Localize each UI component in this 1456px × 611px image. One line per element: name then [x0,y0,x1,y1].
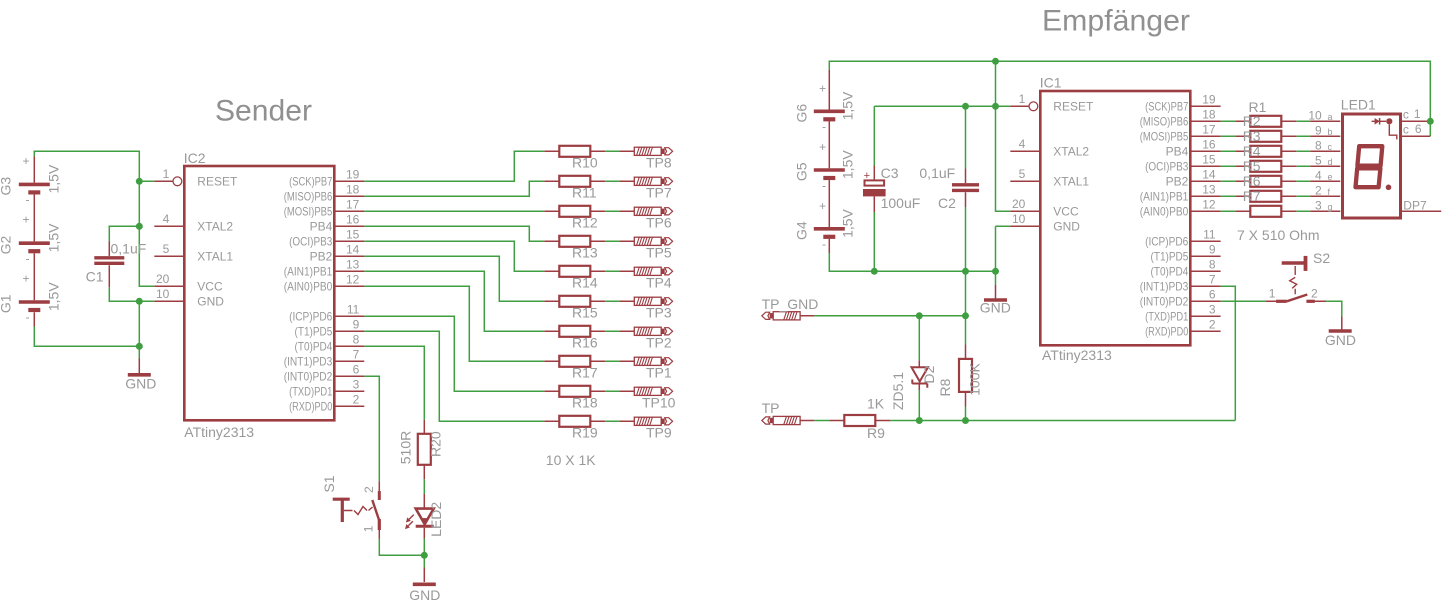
svg-text:G2: G2 [0,235,14,254]
svg-text:R20: R20 [427,431,443,457]
svg-text:(MOSI)PB5: (MOSI)PB5 [284,205,333,219]
svg-text:(INT0)PD2: (INT0)PD2 [1140,295,1189,309]
svg-text:(INT1)PD3: (INT1)PD3 [284,355,333,369]
svg-text:IC1: IC1 [1040,75,1062,91]
svg-text:ATtiny2313: ATtiny2313 [184,424,254,440]
svg-text:R17: R17 [572,365,598,381]
svg-text:+: + [819,199,826,213]
svg-text:(ICP)PD6: (ICP)PD6 [1145,235,1188,249]
svg-text:12: 12 [346,272,360,286]
svg-text:6: 6 [1415,122,1422,136]
svg-text:16: 16 [1202,137,1216,151]
svg-text:(OCI)PB3: (OCI)PB3 [1145,160,1188,174]
svg-text:19: 19 [1202,92,1216,106]
svg-text:15: 15 [346,227,360,241]
svg-text:(T0)PD4: (T0)PD4 [295,340,333,354]
svg-text:C2: C2 [938,195,956,211]
svg-text:GND: GND [980,300,1011,316]
svg-text:10 X 1K: 10 X 1K [546,452,596,468]
svg-text:18: 18 [1202,107,1216,121]
svg-text:10: 10 [1308,108,1322,122]
svg-text:1,5V: 1,5V [839,91,855,120]
svg-text:R12: R12 [572,215,598,231]
svg-text:(RXD)PD0: (RXD)PD0 [289,400,332,414]
svg-text:PB4: PB4 [310,220,333,234]
svg-text:(INT1)PD3: (INT1)PD3 [1140,280,1189,294]
svg-text:-: - [26,310,30,324]
svg-text:ATtiny2313: ATtiny2313 [1042,347,1112,363]
svg-text:+: + [22,213,29,227]
svg-text:TP: TP [762,400,780,416]
svg-text:7: 7 [353,347,360,361]
svg-text:1,5V: 1,5V [839,208,855,237]
svg-text:R18: R18 [572,395,598,411]
svg-text:(TXD)PD1: (TXD)PD1 [1145,310,1188,324]
svg-text:1,5V: 1,5V [45,282,61,311]
svg-text:1: 1 [1414,107,1421,121]
svg-text:(TXD)PD1: (TXD)PD1 [289,385,332,399]
svg-text:TP6: TP6 [646,215,672,231]
svg-text:IC2: IC2 [184,150,206,166]
svg-text:a: a [1328,112,1333,122]
svg-text:5: 5 [1019,167,1026,181]
svg-text:8: 8 [353,332,360,346]
svg-text:17: 17 [346,197,360,211]
svg-text:+: + [864,170,870,182]
svg-text:R4: R4 [1243,143,1261,159]
svg-text:R15: R15 [572,305,598,321]
svg-text:+: + [819,140,826,154]
svg-text:ZD5.1: ZD5.1 [890,372,906,410]
svg-text:(RXD)PD0: (RXD)PD0 [1145,325,1188,339]
svg-text:1,5V: 1,5V [45,164,61,193]
svg-text:(AIN1)PB1: (AIN1)PB1 [1140,190,1189,204]
svg-text:(MISO)PB6: (MISO)PB6 [1140,115,1189,129]
svg-text:3: 3 [1315,198,1322,212]
svg-text:(T1)PD5: (T1)PD5 [295,325,333,339]
svg-text:R2: R2 [1243,113,1261,129]
svg-text:(ICP)PD6: (ICP)PD6 [289,310,332,324]
svg-text:G6: G6 [794,104,810,123]
svg-text:10: 10 [156,287,170,301]
svg-text:XTAL2: XTAL2 [1053,145,1089,159]
svg-text:11: 11 [1203,227,1216,241]
svg-text:19: 19 [346,167,360,181]
svg-text:-: - [822,120,826,134]
svg-text:510R: 510R [398,431,414,464]
svg-text:1: 1 [1019,92,1026,106]
svg-text:(T1)PD5: (T1)PD5 [1151,250,1189,264]
svg-text:(SCK)PB7: (SCK)PB7 [1145,100,1188,114]
svg-text:R19: R19 [572,425,598,441]
svg-text:2: 2 [1311,287,1318,301]
svg-text:-: - [26,193,30,207]
svg-text:R5: R5 [1243,158,1261,174]
svg-text:(INT0)PD2: (INT0)PD2 [284,370,333,384]
svg-text:4: 4 [163,212,170,226]
svg-text:5: 5 [1315,153,1322,167]
svg-text:R8: R8 [937,378,953,396]
svg-text:100uF: 100uF [881,195,921,211]
svg-text:S2: S2 [1313,250,1330,266]
svg-text:1: 1 [1269,287,1276,301]
svg-text:G5: G5 [794,162,810,181]
svg-text:0,1uF: 0,1uF [111,241,147,257]
svg-text:LED2: LED2 [428,502,444,537]
svg-text:14: 14 [346,242,360,256]
svg-text:VCC: VCC [197,280,223,294]
svg-text:G3: G3 [0,177,14,196]
svg-text:RESET: RESET [197,175,238,189]
svg-text:R10: R10 [572,155,598,171]
svg-text:R11: R11 [572,185,597,201]
svg-text:PB2: PB2 [1166,175,1189,189]
svg-text:TP5: TP5 [646,245,672,261]
svg-text:100K: 100K [967,362,983,395]
svg-text:GND: GND [1325,332,1356,348]
svg-text:10: 10 [1012,212,1026,226]
svg-text:XTAL1: XTAL1 [197,250,233,264]
svg-text:R13: R13 [572,245,598,261]
svg-text:(MOSI)PB5: (MOSI)PB5 [1140,130,1189,144]
svg-text:15: 15 [1202,152,1216,166]
svg-text:11: 11 [347,302,360,316]
svg-text:XTAL2: XTAL2 [197,220,233,234]
svg-text:2: 2 [1315,183,1322,197]
svg-text:2: 2 [1209,317,1216,331]
svg-text:-: - [26,251,30,265]
svg-text:1K: 1K [867,395,885,411]
svg-text:20: 20 [156,272,170,286]
svg-text:R14: R14 [572,275,598,291]
svg-text:RESET: RESET [1053,100,1094,114]
svg-text:2: 2 [353,392,360,406]
svg-text:5: 5 [163,242,170,256]
svg-text:6: 6 [1209,287,1216,301]
svg-text:GND: GND [125,376,156,392]
svg-text:TP4: TP4 [646,275,672,291]
svg-text:D2: D2 [921,365,937,383]
svg-text:0,1uF: 0,1uF [919,165,955,181]
svg-text:c: c [1403,122,1409,136]
svg-text:R7: R7 [1243,188,1261,204]
svg-text:9: 9 [353,317,360,331]
svg-text:9: 9 [1315,123,1322,137]
svg-text:7: 7 [1209,272,1216,286]
svg-text:18: 18 [346,182,360,196]
svg-text:4: 4 [1315,168,1322,182]
svg-text:(SCK)PB7: (SCK)PB7 [289,175,332,189]
svg-text:Sender: Sender [215,95,312,128]
svg-text:VCC: VCC [1053,205,1079,219]
svg-text:8: 8 [1315,138,1322,152]
svg-text:1,5V: 1,5V [45,223,61,252]
svg-text:6: 6 [353,362,360,376]
svg-text:Empfänger: Empfänger [1042,4,1190,37]
svg-text:(AIN1)PB1: (AIN1)PB1 [284,265,333,279]
svg-text:TP8: TP8 [646,155,672,171]
svg-text:+: + [22,272,29,286]
svg-text:13: 13 [1202,182,1216,196]
svg-text:R6: R6 [1243,173,1261,189]
svg-text:7 X 510 Ohm: 7 X 510 Ohm [1237,227,1320,243]
svg-text:TP7: TP7 [646,185,672,201]
svg-text:(AIN0)PB0: (AIN0)PB0 [1140,205,1189,219]
svg-text:16: 16 [346,212,360,226]
svg-text:C1: C1 [86,269,104,285]
svg-text:-: - [822,178,826,192]
svg-text:R3: R3 [1243,128,1261,144]
svg-text:R16: R16 [572,335,598,351]
svg-text:b: b [1328,127,1333,137]
svg-text:XTAL1: XTAL1 [1053,175,1089,189]
svg-text:TP10: TP10 [642,395,676,411]
svg-text:G1: G1 [0,294,14,313]
svg-text:c: c [1403,107,1409,121]
svg-text:S1: S1 [321,475,337,492]
svg-text:TP2: TP2 [646,335,672,351]
svg-text:d: d [1328,157,1333,167]
svg-text:1: 1 [361,525,375,532]
svg-text:TP_GND: TP_GND [762,296,819,312]
svg-text:TP3: TP3 [646,305,672,321]
svg-text:9: 9 [1209,242,1216,256]
svg-text:(AIN0)PB0: (AIN0)PB0 [284,280,333,294]
svg-text:C3: C3 [881,165,899,181]
svg-text:+: + [819,81,826,95]
svg-text:20: 20 [1012,197,1026,211]
svg-text:1,5V: 1,5V [839,150,855,179]
svg-text:14: 14 [1202,167,1216,181]
svg-text:PB2: PB2 [310,250,333,264]
svg-text:GND: GND [1053,220,1080,234]
svg-text:TP1: TP1 [646,365,672,381]
svg-text:c: c [1328,142,1333,152]
svg-text:(MISO)PB6: (MISO)PB6 [284,190,333,204]
svg-text:f: f [1328,187,1331,197]
svg-text:GND: GND [409,587,440,603]
svg-text:R9: R9 [867,425,885,441]
svg-text:G4: G4 [794,221,810,240]
svg-text:(T0)PD4: (T0)PD4 [1151,265,1189,279]
svg-text:PB4: PB4 [1166,145,1189,159]
svg-text:+: + [22,154,29,168]
svg-text:8: 8 [1209,257,1216,271]
svg-text:3: 3 [353,377,360,391]
svg-text:2: 2 [362,486,376,493]
svg-text:GND: GND [197,295,224,309]
svg-text:17: 17 [1202,122,1216,136]
svg-text:g: g [1328,202,1333,212]
svg-text:LED1: LED1 [1341,97,1376,113]
svg-text:4: 4 [1019,137,1026,151]
svg-text:-: - [822,237,826,251]
svg-text:TP9: TP9 [646,425,672,441]
svg-text:12: 12 [1202,197,1216,211]
svg-text:13: 13 [346,257,360,271]
svg-text:DP7: DP7 [1403,198,1427,212]
svg-text:1: 1 [163,167,170,181]
svg-text:e: e [1328,172,1333,182]
svg-text:(OCI)PB3: (OCI)PB3 [289,235,332,249]
svg-text:3: 3 [1209,302,1216,316]
